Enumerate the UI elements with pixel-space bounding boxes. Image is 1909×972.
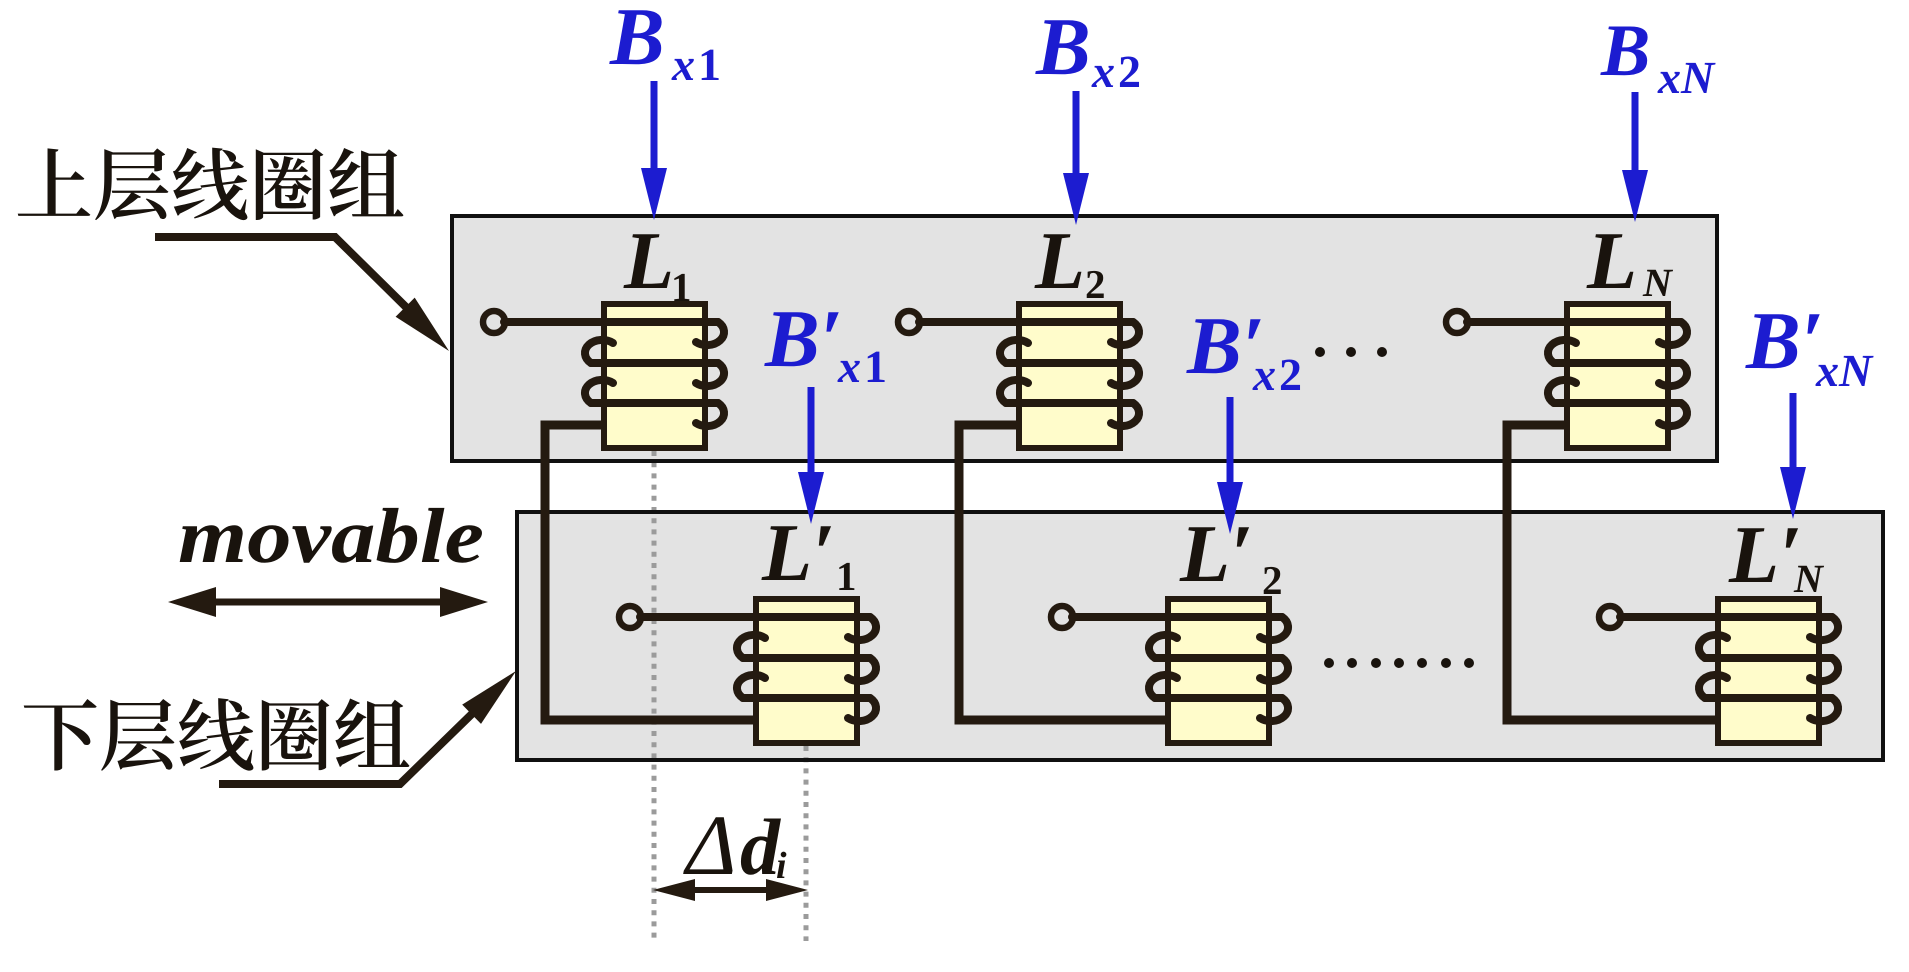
lower coil-group box	[517, 512, 1883, 760]
arrow B'x2	[1227, 397, 1234, 486]
upper box border	[452, 216, 1717, 461]
svg-text:2: 2	[1262, 557, 1283, 603]
svg-text:B: B	[1600, 10, 1650, 92]
svg-text:x: x	[1091, 46, 1115, 97]
delta d double arrow	[688, 887, 775, 893]
svg-text:2: 2	[1279, 349, 1302, 400]
svg-text:2: 2	[1085, 261, 1106, 307]
arrow B'xN	[1790, 393, 1797, 471]
svg-text:x: x	[837, 341, 861, 392]
lower ellipsis dots	[1324, 658, 1474, 668]
dotted reference line at L'1 position	[804, 746, 809, 941]
dotted reference line at L1 left edge	[652, 451, 657, 941]
terminal of L'2	[1051, 606, 1073, 628]
svg-text:xN: xN	[1657, 52, 1716, 103]
svg-text:L: L	[623, 215, 674, 306]
label upper coil group (Chinese)	[18, 148, 404, 221]
svg-text:1: 1	[836, 553, 857, 599]
svg-text:1: 1	[864, 341, 887, 392]
inductor L'2	[1072, 599, 1288, 743]
terminal of L'1	[619, 606, 641, 628]
terminal of LN	[1446, 311, 1468, 333]
upper coil-group box	[452, 216, 1717, 461]
leader arrow to lower box	[219, 708, 478, 784]
svg-text:1: 1	[671, 264, 692, 310]
svg-text:movable: movable	[178, 492, 484, 579]
svg-text:B′: B′	[764, 293, 843, 384]
svg-text:B′: B′	[1745, 295, 1824, 386]
wire L2 to L'2	[959, 425, 1168, 720]
svg-text:x: x	[1252, 349, 1276, 400]
wire LN to L'N	[1507, 425, 1718, 720]
inductor L'1	[640, 599, 876, 743]
svg-text:N: N	[1793, 556, 1825, 601]
upper ellipsis dots	[1315, 347, 1387, 357]
inductor L1	[504, 304, 724, 448]
svg-text:L′: L′	[761, 507, 835, 598]
svg-text:i: i	[776, 845, 787, 887]
svg-text:B: B	[1035, 1, 1091, 92]
svg-text:1: 1	[698, 39, 721, 90]
svg-text:xN: xN	[1815, 345, 1874, 396]
svg-text:L′: L′	[1179, 508, 1253, 599]
svg-text:Δ: Δ	[683, 797, 736, 893]
inductor L'N	[1620, 599, 1838, 743]
svg-text:B: B	[609, 0, 665, 82]
movable double arrow	[206, 599, 450, 606]
inductor LN	[1467, 304, 1687, 448]
svg-text:L′: L′	[1728, 509, 1802, 600]
svg-text:L: L	[1034, 215, 1085, 306]
svg-text:d: d	[740, 804, 781, 892]
leader arrow to upper box	[155, 237, 410, 311]
label lower coil group (Chinese)	[24, 698, 410, 771]
svg-text:N: N	[1642, 260, 1674, 305]
arrow B'x1	[808, 387, 815, 476]
arrow Bx1	[651, 81, 658, 172]
terminal of L'N	[1599, 606, 1621, 628]
lower box border	[517, 512, 1883, 760]
terminal of L2	[898, 311, 920, 333]
svg-text:x: x	[671, 39, 695, 90]
wire L1 to L'1	[545, 425, 756, 720]
svg-text:L: L	[1586, 215, 1637, 306]
terminal of L1	[483, 311, 505, 333]
arrow BxN	[1632, 92, 1639, 174]
inductor L2	[919, 304, 1139, 448]
svg-text:2: 2	[1118, 46, 1141, 97]
arrow Bx2	[1073, 91, 1080, 177]
